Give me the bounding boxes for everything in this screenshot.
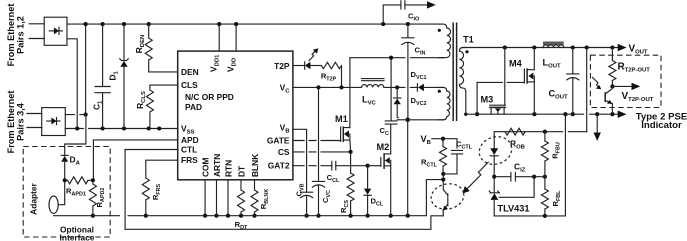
IC pin labels top (VDD1 VDD) (209, 54, 238, 72)
capacitor CCTL (445, 140, 473, 174)
resistor RDEN (134, 24, 178, 72)
wire switch node line (350, 57, 444, 59)
shunt regulator TLV431 (489, 177, 534, 216)
wire aux return line (408, 119, 444, 121)
optocoupler LED (490, 132, 498, 177)
adapter barrel jack (49, 182, 119, 216)
capacitor CIZ (series) (511, 161, 526, 181)
capacitor CVC (polarized) (312, 181, 332, 215)
resistor ROB (505, 128, 525, 150)
inductor LOUT (543, 42, 564, 70)
svg-text:Pairs 1,2: Pairs 1,2 (16, 16, 26, 54)
capacitor COUT (polarized) (549, 48, 579, 115)
resistor RDT (235, 180, 248, 231)
svg-text:TLV431: TLV431 (498, 204, 530, 214)
Type 2 PSE Indicator dashed box (590, 55, 661, 107)
resistor RAPD1 (65, 177, 93, 198)
capacitor C1 (92, 24, 111, 128)
resistor RBLNK (251, 180, 270, 216)
svg-text:Adapter: Adapter (29, 182, 39, 214)
svg-text:PAD: PAD (185, 102, 202, 112)
wire input pair 1,2 stubs (29, 24, 44, 39)
svg-text:Indicator: Indicator (641, 120, 682, 131)
arrow return output (618, 111, 627, 118)
wire aux ground column (407, 118, 409, 216)
arrow chassis ground (594, 114, 601, 141)
wire GAT2 line (293, 165, 332, 167)
wire VOUT feedback drop (586, 48, 588, 132)
optocoupler transistor (443, 174, 448, 216)
svg-text:M4: M4 (509, 59, 523, 69)
diode DVC1 (411, 70, 445, 91)
resistor RFRS (142, 160, 177, 216)
IC U1 TPS23754 (178, 51, 293, 180)
transistor M3 (sync rect, rotated) (481, 48, 506, 115)
wire bridge1 lower output to VSS rail (67, 39, 77, 129)
svg-text:DT: DT (237, 165, 247, 177)
svg-text:APD: APD (181, 135, 199, 145)
transistor M4 (freewheel sync rect) (477, 48, 534, 115)
svg-text:M2: M2 (377, 142, 390, 152)
svg-text:Interface: Interface (60, 232, 95, 241)
diode bridge 2 (pairs 3,4) (42, 108, 66, 136)
wire VDD1 VDD pins (219, 24, 236, 51)
node CS junction (349, 150, 353, 154)
diode bridge 1 (pairs 1,2) (44, 17, 67, 45)
svg-text:From Ethernet: From Ethernet (6, 4, 16, 67)
T1 primary winding (439, 24, 451, 58)
resistor RCS (339, 152, 354, 216)
svg-text:RTN: RTN (224, 160, 234, 177)
arrow VT2P-OUT (610, 83, 653, 103)
node opto collector junctions (441, 172, 445, 182)
svg-text:M3: M3 (481, 94, 494, 104)
optocoupler LED dashed ellipse (476, 133, 516, 169)
IC pin labels right (267, 61, 290, 171)
wire feedback ground line (494, 114, 565, 216)
wire secondary top line (463, 47, 618, 49)
wire COM ARTN RTN pins to rail (205, 180, 228, 216)
wire VB pin to CVB (293, 129, 307, 192)
optocoupler transistor dashed ellipse (429, 181, 466, 212)
svg-text:GATE: GATE (267, 136, 290, 146)
T1 core (453, 23, 456, 122)
resistor RAPD2 (89, 180, 106, 215)
node adapter junctions (63, 178, 95, 218)
wire VC line (293, 86, 362, 88)
svg-text:ARTN: ARTN (212, 154, 222, 177)
wire diode DA to positive junction (65, 115, 86, 156)
wire CIZ line (494, 176, 545, 178)
wire CS line (293, 151, 351, 153)
svg-text:GAT2: GAT2 (268, 161, 290, 171)
svg-text:CS: CS (278, 147, 290, 157)
wire main ground rail (128, 180, 441, 216)
wire APD pin to RAPD junction (93, 140, 177, 179)
resistor RFBL (541, 177, 562, 216)
transformer T1 (438, 23, 474, 122)
svg-text:T2P: T2P (274, 61, 290, 71)
resistor RCTL (421, 139, 447, 174)
wire secondary return line (466, 113, 618, 115)
label From Ethernet Pairs 3,4 (6, 91, 26, 154)
IC pin labels bottom (COM ARTN RTN DT BLNK) (201, 154, 261, 177)
svg-text:T1: T1 (463, 35, 474, 45)
capacitor CC (clamp) (380, 58, 397, 137)
svg-text:COM: COM (201, 157, 211, 177)
resistor RFBU (541, 132, 561, 177)
wire GATE line to M1 (293, 140, 341, 142)
svg-text:CLS: CLS (181, 80, 198, 90)
capacitor CVB (polarized) (294, 183, 312, 215)
node ground rail junctions (144, 214, 410, 218)
wire vertical join bridge outputs (85, 24, 87, 115)
wire CVC column (318, 87, 320, 181)
optocoupler coupling arrow (463, 162, 489, 193)
resistor RCLS (135, 85, 178, 128)
LED T2P indicator (293, 48, 322, 69)
IC pin labels left (181, 67, 234, 165)
T1 aux winding (439, 87, 450, 119)
svg-text:BLNK: BLNK (250, 154, 260, 177)
wire VSS rail (65, 128, 177, 130)
wire feedback top line (494, 131, 587, 133)
capacitor CIN (polarized) (402, 24, 426, 118)
transistor M1 (335, 58, 351, 152)
svg-text:N/C OR PPD: N/C OR PPD (185, 92, 234, 102)
svg-text:Pairs 3,4: Pairs 3,4 (16, 102, 26, 141)
arrow VOUT (618, 44, 627, 51)
svg-text:From Ethernet: From Ethernet (6, 91, 16, 154)
diode D1 (TVS) (108, 24, 129, 128)
svg-text:FRS: FRS (181, 155, 198, 165)
wire LVC to DVC1 (384, 86, 417, 88)
label From Ethernet Pairs 1,2 (6, 4, 26, 67)
resistor RT2P-OUT (609, 48, 650, 87)
wire VB prime stub (432, 139, 457, 148)
node top rail junctions (84, 22, 410, 26)
wire CTL long bottom line (125, 216, 443, 230)
resistor RT2P (321, 62, 342, 87)
wire bridge2 upper output to positive junction (65, 114, 85, 116)
transistor M2 (368, 125, 391, 216)
adapter optional interface dashed box (23, 147, 110, 238)
svg-text:CTL: CTL (181, 145, 197, 155)
T1 secondary winding (459, 48, 465, 115)
diode DCL (364, 164, 384, 216)
svg-text:M1: M1 (335, 114, 348, 124)
diode DVC2 (394, 87, 427, 119)
wire top VDD rail (67, 23, 441, 25)
node VSS rail junctions (75, 113, 161, 131)
inductor LVC (362, 79, 385, 107)
svg-text:DEN: DEN (181, 67, 199, 77)
capacitor CIO with arrow (383, 1, 436, 24)
wire input pair 3,4 stubs (27, 114, 42, 128)
diode DA (61, 155, 80, 181)
wire CTL pin drop (125, 150, 178, 230)
phototransistor T2P indicator (592, 77, 612, 114)
capacitor CCL (series) (327, 162, 368, 185)
